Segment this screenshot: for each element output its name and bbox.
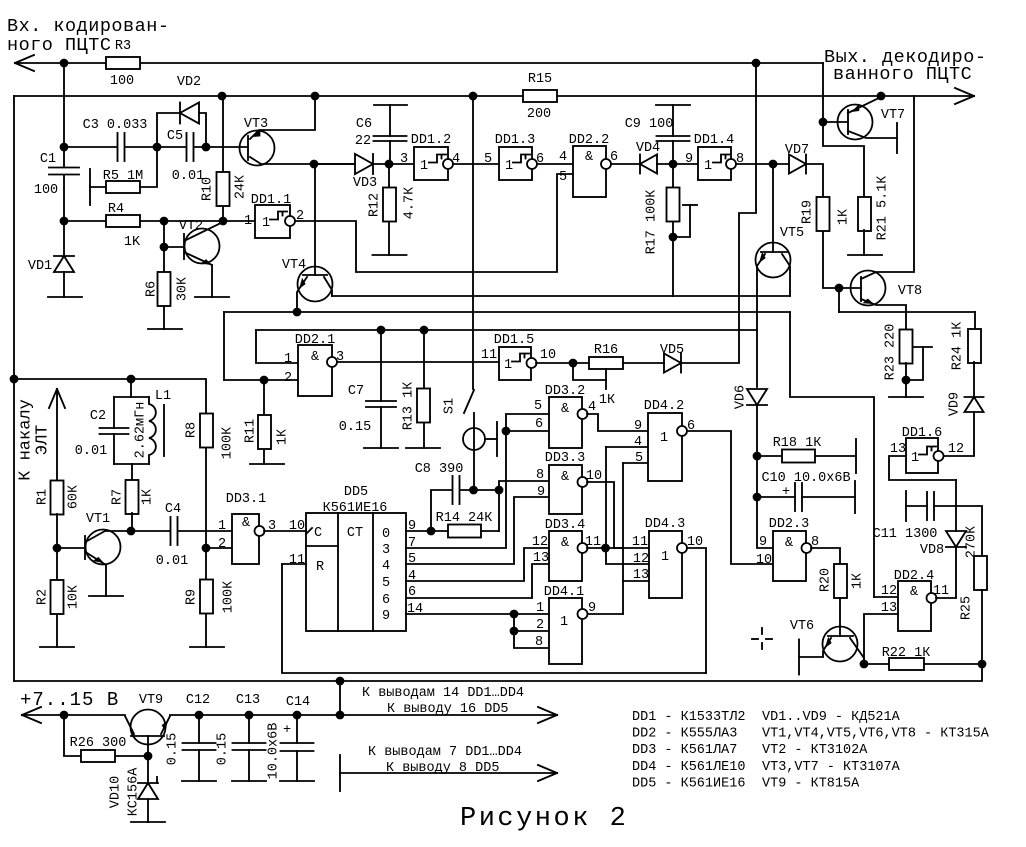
glyph DD1.4 schmitt [713, 155, 730, 163]
wire VT5 bar [761, 251, 787, 253]
wire R10 [222, 96, 224, 221]
wire VT1 bar [84, 536, 86, 559]
svg-text:13: 13 [890, 442, 906, 457]
svg-text:C12: C12 [186, 693, 210, 708]
svg-text:100: 100 [34, 183, 58, 198]
svg-text:ЭЛТ: ЭЛТ [33, 425, 52, 456]
bubble DD4.3 out [677, 543, 687, 553]
wire VT4 base riser [314, 164, 316, 275]
node VT8 base [835, 284, 844, 293]
bubble DD1.5 out [527, 358, 537, 368]
node R14 left [427, 527, 436, 536]
svg-text:VT7: VT7 [881, 108, 905, 123]
svg-text:R2: R2 [35, 589, 50, 605]
svg-text:12: 12 [881, 584, 897, 599]
wire frame-rail tie [339, 681, 341, 715]
transistor VT5 body [756, 243, 791, 278]
svg-text:9: 9 [634, 419, 642, 434]
svg-text:6: 6 [535, 417, 543, 432]
wire S1 upper [472, 96, 474, 389]
ic DD5 body [306, 513, 406, 631]
svg-text:C2: C2 [90, 409, 106, 424]
svg-text:R19: R19 [800, 200, 815, 224]
arrow VT9 emitter [160, 719, 171, 732]
svg-text:VT4: VT4 [282, 258, 306, 273]
svg-text:&: & [311, 350, 319, 365]
transistor VT2 body [185, 229, 220, 264]
wire R1-VT1 [56, 514, 58, 548]
svg-text:+: + [283, 723, 291, 738]
svg-text:100: 100 [110, 74, 134, 89]
wire VT5 collector [782, 254, 790, 296]
svg-text:0.15: 0.15 [339, 420, 371, 435]
node VT3 collector [310, 160, 319, 169]
bubble DD4.2 out [677, 426, 687, 436]
gate DD1.6 [906, 438, 938, 473]
arrow VT1 emitter [93, 555, 106, 566]
svg-text:VT3,VT7 - КТ3107А: VT3,VT7 - КТ3107А [762, 760, 901, 775]
svg-text:S1: S1 [442, 398, 457, 414]
svg-text:12: 12 [948, 442, 964, 457]
glyph DD1.5 schmitt [512, 354, 529, 362]
bubble DD4.1 out [578, 609, 588, 619]
svg-text:1: 1 [911, 451, 919, 466]
wire DD2.2-VD4 [611, 163, 640, 165]
bubble DD1.6 out [934, 451, 944, 461]
svg-text:10К: 10К [66, 585, 81, 609]
wire VT2 emitter [186, 253, 212, 297]
svg-text:1К: 1К [275, 429, 290, 445]
svg-text:R15: R15 [528, 72, 552, 87]
node R14 C8 right [495, 486, 504, 495]
svg-text:VD7: VD7 [785, 143, 809, 158]
svg-text:R1: R1 [35, 489, 50, 505]
ground C13 [232, 780, 266, 782]
wire VD3 row [314, 163, 414, 165]
svg-text:5: 5 [534, 399, 542, 414]
svg-text:+: + [782, 485, 790, 500]
wire pin4 riser [606, 447, 649, 564]
svg-text:10.0х6В: 10.0х6В [266, 723, 281, 780]
wire VD5 riser [681, 63, 756, 363]
arrow gnd right [538, 765, 557, 781]
resistor R23 [900, 330, 913, 364]
wire C8 right [460, 489, 499, 491]
resistor R16 [589, 357, 623, 369]
svg-text:0.01: 0.01 [75, 444, 107, 459]
svg-text:C13: C13 [236, 693, 260, 708]
glyph DD1.2 schmitt [429, 155, 446, 163]
wire DD5 out7 [406, 414, 549, 548]
stub C6 common [374, 104, 407, 106]
svg-text:VD9: VD9 [947, 392, 962, 416]
wire DD4.1 pin2 pin8 [514, 614, 549, 648]
wire DD1.3-DD2.2 [537, 163, 573, 165]
wire C12 [198, 715, 200, 781]
svg-text:DD3 - К561ЛА7: DD3 - К561ЛА7 [632, 743, 737, 758]
svg-text:22: 22 [355, 134, 371, 149]
stub C10 common [854, 481, 856, 513]
switch S1 actuator [463, 428, 485, 450]
node R22 left [860, 660, 869, 669]
svg-text:DD2 - К555ЛА3: DD2 - К555ЛА3 [632, 727, 737, 742]
bubble DD3.1 out [255, 526, 265, 536]
svg-text:R: R [316, 560, 324, 575]
svg-text:11: 11 [481, 348, 497, 363]
wire VT3 collector [250, 157, 355, 164]
svg-text:12: 12 [532, 535, 548, 550]
svg-text:R13 1К: R13 1К [401, 382, 416, 431]
svg-text:&: & [561, 470, 569, 485]
svg-text:1: 1 [560, 615, 568, 630]
bubble DD3.3 out [578, 477, 588, 487]
svg-text:30К: 30К [175, 277, 190, 301]
svg-text:4: 4 [588, 400, 596, 415]
node tank top [127, 375, 136, 384]
svg-text:3: 3 [382, 543, 390, 558]
wire R19 lower [823, 230, 839, 288]
svg-text:2: 2 [536, 618, 544, 633]
wire C8 left riser [431, 490, 452, 531]
svg-text:11: 11 [933, 584, 949, 599]
resistor R3 [106, 57, 140, 69]
svg-text:C8 390: C8 390 [415, 462, 464, 477]
stub R17 common [683, 204, 697, 206]
svg-text:DD1.1: DD1.1 [251, 193, 292, 208]
svg-text:13: 13 [533, 551, 549, 566]
wire VT2 collector [186, 222, 223, 240]
capacitor C11 [927, 492, 934, 520]
bubble DD3.2 out [578, 409, 588, 419]
wire VD9-DD1.6 [943, 412, 974, 456]
wire DD2.1 out [337, 361, 499, 363]
transistor VT6 body [823, 627, 858, 662]
wire VT3 bar [247, 136, 249, 160]
node VD7 anode [769, 160, 778, 169]
wire VT5 emitter [757, 254, 765, 387]
wire R17 stub [673, 205, 690, 237]
inductor L1 coil [149, 397, 156, 464]
wire DD4.2 out [687, 431, 773, 564]
svg-text:DD1.2: DD1.2 [411, 133, 452, 148]
svg-text:VT9 - КТ815А: VT9 - КТ815А [762, 776, 860, 791]
svg-text:DD4.2: DD4.2 [644, 399, 685, 414]
svg-text:5: 5 [484, 152, 492, 167]
gate DD3.4 [549, 531, 582, 581]
svg-text:1: 1 [244, 214, 252, 229]
svg-text:1К: 1К [836, 209, 851, 225]
svg-text:6: 6 [382, 593, 390, 608]
wire bus y312 corner [223, 312, 225, 380]
wire DD5 out6 [406, 564, 549, 598]
svg-text:10: 10 [540, 348, 556, 363]
wire DD2.4 pin13 [864, 614, 898, 664]
svg-text:DD1 - К1533ТЛ2: DD1 - К1533ТЛ2 [632, 710, 745, 725]
capacitor C9 [657, 136, 690, 141]
wire arrow nakal [56, 389, 58, 481]
diode VD9 [965, 397, 984, 412]
bubble DD2.2 out [601, 159, 611, 169]
svg-text:R21 5.1К: R21 5.1К [875, 176, 890, 241]
svg-text:R11: R11 [243, 419, 258, 443]
svg-text:VD10: VD10 [108, 776, 123, 808]
diode VD1 [54, 256, 74, 272]
wire output rail y96 [14, 95, 974, 97]
gate DD1.4 [698, 147, 731, 180]
wire VT1 emitter [87, 553, 106, 596]
stub C11 common [905, 491, 907, 521]
capacitor C2 [100, 428, 129, 434]
resistor R15 [523, 90, 557, 102]
svg-text:1: 1 [262, 216, 270, 231]
bubble DD2.3 out [802, 543, 812, 553]
svg-text:C3 0.033: C3 0.033 [83, 118, 148, 133]
svg-text:К выводам 14 DD1…DD4: К выводам 14 DD1…DD4 [362, 686, 524, 701]
wire DD3.3 out [587, 482, 614, 548]
diode VD3 [355, 154, 373, 174]
node C14 [293, 711, 302, 720]
wire bus y330 [256, 330, 757, 363]
wire DD1.4 out [736, 163, 789, 165]
svg-text:1: 1 [704, 159, 712, 174]
svg-text:R22 1К: R22 1К [882, 646, 931, 661]
svg-text:VT1: VT1 [86, 512, 110, 527]
svg-text:DD3.4: DD3.4 [545, 518, 586, 533]
svg-text:ванного ПЦТС: ванного ПЦТС [833, 64, 972, 85]
diode VD7 [789, 155, 806, 174]
ground R11 [250, 463, 284, 465]
wire R17 lead [672, 164, 674, 296]
mark crosshair [752, 628, 772, 649]
wire DD3.2 out [587, 414, 648, 431]
svg-text:DD1.3: DD1.3 [495, 133, 536, 148]
ic DD5 divider1 [337, 513, 339, 631]
wire VT7 collector [848, 131, 897, 138]
svg-text:VD5: VD5 [660, 343, 684, 358]
wire R5 left stub [90, 186, 106, 188]
arrow +V left [22, 707, 41, 723]
node C12 [195, 711, 204, 720]
bubble DD2.4 out [927, 593, 937, 603]
wire VT8 base to R24 row [839, 288, 975, 330]
gate DD4.2 [648, 413, 682, 481]
wire R24-VD9 [973, 362, 975, 397]
stub C9 common [656, 104, 690, 106]
wire tank [114, 379, 149, 481]
wire DD3.1 out [264, 530, 306, 532]
svg-text:DD3.3: DD3.3 [545, 451, 586, 466]
svg-text:К выводам 7 DD1…DD4: К выводам 7 DD1…DD4 [368, 745, 522, 760]
bubble DD2.1 out [327, 357, 337, 367]
capacitor C12 [183, 743, 216, 750]
node y96 VT7 [877, 92, 886, 101]
svg-text:4: 4 [382, 559, 390, 574]
svg-text:DD2.3: DD2.3 [769, 517, 810, 532]
zener VD10 hook [156, 777, 158, 783]
resistor R12 [383, 188, 396, 222]
svg-text:R8: R8 [184, 422, 199, 438]
wire DD5 out4 [406, 548, 549, 581]
gate DD1.2 [414, 147, 448, 180]
gate DD2.3 [773, 531, 806, 581]
wire R25 bottom [981, 590, 983, 664]
wire R26 lead [64, 715, 148, 756]
svg-text:DD3.1: DD3.1 [226, 492, 267, 507]
svg-text:КС156А: КС156А [126, 767, 141, 817]
node VT9 base [144, 752, 153, 761]
node C3-C5 [153, 143, 162, 152]
bubble DD3.4 out [578, 543, 588, 553]
arrow VT8 emitter [863, 297, 876, 307]
svg-text:1: 1 [661, 550, 669, 565]
wire R8 chain [205, 448, 207, 647]
svg-text:DD4 - К561ЛЕ10: DD4 - К561ЛЕ10 [632, 760, 745, 775]
svg-text:8: 8 [536, 468, 544, 483]
diode VD8 [946, 531, 966, 547]
svg-text:CT: CT [347, 526, 363, 541]
stub S1 plunger [496, 422, 498, 456]
stub VT7 common [896, 123, 898, 153]
capacitor C4 [171, 517, 178, 545]
svg-text:&: & [242, 516, 250, 531]
svg-text:DD2.2: DD2.2 [569, 133, 610, 148]
wire gnd bus [340, 772, 557, 774]
wire VT1 collector [87, 531, 170, 541]
node VT7 base [819, 118, 828, 127]
node pin14 branch [510, 610, 519, 619]
bubble DD1.1 out [285, 216, 295, 226]
svg-text:R16: R16 [594, 343, 618, 358]
svg-text:Вх. кодирован-: Вх. кодирован- [7, 16, 169, 37]
input arrow left [15, 55, 34, 71]
svg-text:100К: 100К [220, 427, 235, 459]
bubble DD1.4 out [726, 159, 736, 169]
wire DD2.3 out [811, 548, 840, 564]
svg-text:DD5 - К561ИЕ16: DD5 - К561ИЕ16 [632, 776, 745, 791]
wire VT6 emitter [799, 638, 831, 657]
wire R13 [423, 330, 425, 448]
capacitor C5 [187, 133, 194, 161]
wire DD5 out5 [406, 497, 549, 564]
glyph DD1.1 schmitt [270, 212, 287, 220]
capacitor C7 [366, 401, 396, 407]
wire VT6 collector [850, 638, 864, 664]
wire R6 lead [163, 247, 165, 329]
svg-text:VT5: VT5 [780, 226, 804, 241]
wire VT8 collector riser [861, 96, 914, 279]
svg-text:1: 1 [660, 431, 668, 446]
wire VD6 lower [757, 405, 773, 548]
svg-text:&: & [561, 402, 569, 417]
transistor VT4 body [298, 267, 333, 302]
svg-text:R4: R4 [108, 202, 124, 217]
svg-text:0.15: 0.15 [165, 733, 180, 765]
svg-text:200: 200 [527, 107, 551, 122]
wire y312 to y397 [790, 312, 874, 597]
svg-text:R9: R9 [184, 589, 199, 605]
resistor R24 [968, 329, 981, 363]
svg-text:C7: C7 [348, 384, 364, 399]
node R18 left [753, 452, 762, 461]
stub VT6 common [798, 640, 800, 675]
svg-text:R26 300: R26 300 [70, 736, 127, 751]
output arrow right [955, 88, 974, 104]
resistor R14 [448, 525, 481, 538]
svg-text:1: 1 [505, 159, 513, 174]
resistor R26 [81, 750, 115, 762]
svg-text:60К: 60К [66, 485, 81, 509]
svg-text:8: 8 [535, 635, 543, 650]
resistor R5 [106, 181, 140, 193]
node R10 bottom [219, 217, 228, 226]
node R4 left [60, 217, 69, 226]
svg-text:VT2 - КТ3102А: VT2 - КТ3102А [762, 743, 868, 758]
node C10 left [753, 493, 762, 502]
ic DD5 divider2 [372, 513, 374, 631]
wire VT7 base [823, 121, 848, 123]
svg-text:5: 5 [382, 576, 390, 591]
wire y379 row [14, 379, 206, 413]
wire C11 [906, 506, 982, 556]
wire R7 bottom [131, 513, 133, 531]
wire +V rail [22, 714, 557, 716]
wire pin7 to DD3.2 pin6 [506, 430, 549, 432]
svg-text:&: & [585, 150, 593, 165]
gate DD1.5 [499, 347, 531, 380]
gate DD3.3 [549, 465, 582, 514]
node R17 stub [669, 233, 678, 242]
svg-text:1К: 1К [850, 573, 865, 589]
wire VT2 base [164, 221, 184, 247]
diode VD6 [747, 389, 767, 405]
node pin2 R11 [260, 376, 269, 385]
wire VT1 base [57, 547, 85, 549]
node VT4 emitter [293, 308, 302, 317]
svg-text:C5: C5 [167, 129, 183, 144]
wire R22 right [924, 663, 982, 665]
wire top input rail y63 [15, 63, 864, 198]
svg-text:VD3: VD3 [353, 176, 377, 191]
node y96 S1 [469, 92, 478, 101]
svg-text:DD4.1: DD4.1 [544, 585, 585, 600]
wire C9 link [672, 105, 674, 164]
wire C14 [296, 715, 298, 781]
gate DD1.3 [499, 147, 532, 180]
svg-text:24К: 24К [233, 175, 248, 199]
wire bus y312 [224, 311, 790, 313]
node C7 top [377, 326, 386, 335]
gate DD3.1 [232, 514, 259, 564]
resistor R4 [106, 215, 140, 227]
gate DD2.2 [573, 146, 606, 197]
resistor R2 [51, 580, 64, 614]
resistor R17 [667, 188, 680, 222]
svg-text:R18 1К: R18 1К [773, 436, 822, 451]
arrow VT5 emitter [756, 252, 767, 265]
svg-text:0.15: 0.15 [215, 733, 230, 765]
svg-text:10: 10 [756, 553, 772, 568]
inductor L1 core [163, 405, 165, 456]
wire VD8 top [955, 480, 957, 531]
wire y380 row [224, 379, 298, 381]
node R22 right [978, 660, 987, 669]
wire VT6-R22 [864, 663, 889, 665]
arrow VT6 emitter [822, 637, 833, 650]
svg-text:&: & [561, 536, 569, 551]
svg-text:C1: C1 [40, 152, 56, 167]
capacitor C14 [281, 743, 314, 751]
svg-text:К561ИЕ16: К561ИЕ16 [323, 501, 388, 516]
